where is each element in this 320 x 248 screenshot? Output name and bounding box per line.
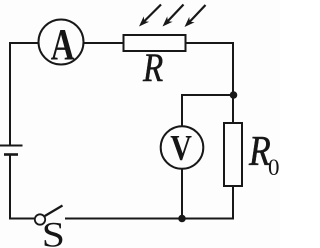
- resistor R box: [124, 35, 186, 51]
- light arrow 3: [185, 5, 206, 27]
- svg-text:S: S: [42, 215, 65, 248]
- battery short plate: [4, 153, 18, 156]
- switch lever: [45, 206, 63, 217]
- wire voltmeter to bottom node: [181, 169, 183, 219]
- wire bottom from switch to right corner: [65, 218, 233, 220]
- switch contact circle: [35, 214, 45, 224]
- svg-text:A: A: [51, 20, 75, 69]
- svg-text:V: V: [170, 128, 192, 168]
- wire ammeter to resistor R: [84, 42, 124, 44]
- wire resistor R to right corner: [186, 42, 235, 44]
- wire top-left corner horizontal: [10, 42, 39, 44]
- ammeter circle: [39, 20, 84, 65]
- node junction bottom: [178, 215, 186, 223]
- label R: [142, 45, 163, 90]
- resistor R0 box: [224, 123, 242, 186]
- wire right vertical down to R0: [232, 42, 234, 123]
- light arrow 2: [163, 5, 184, 27]
- ammeter letter A: [51, 20, 75, 69]
- voltmeter circle: [161, 126, 204, 169]
- svg-text:0: 0: [268, 155, 280, 180]
- battery long plate: [0, 145, 23, 147]
- label R0 italic R: [248, 128, 271, 174]
- light arrow 1: [139, 5, 161, 27]
- wire left vertical lower: [9, 155, 11, 220]
- voltmeter letter V: [170, 128, 192, 168]
- svg-text:R: R: [142, 45, 163, 90]
- wire left vertical upper: [9, 42, 11, 146]
- node junction top: [230, 91, 238, 99]
- wire branch to voltmeter: [182, 95, 234, 126]
- wire bottom-left to switch contact: [9, 218, 34, 220]
- wire R0 to bottom corner: [232, 186, 234, 220]
- label S: [42, 215, 65, 248]
